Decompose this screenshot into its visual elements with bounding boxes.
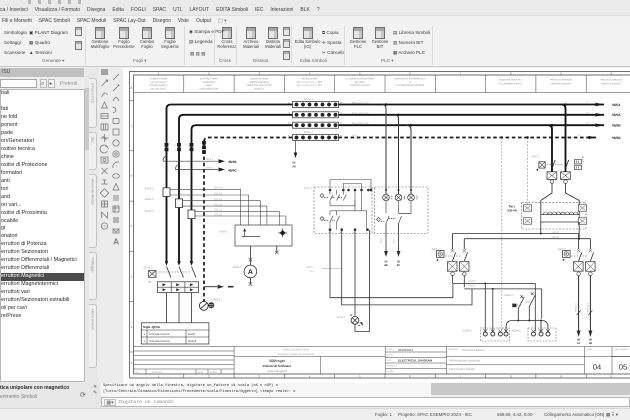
svg-text:SDProget: SDProget: [269, 359, 285, 363]
bus right end arrows: [589, 103, 605, 139]
svg-text:TA3 S2: TA3 S2: [214, 213, 223, 216]
svg-text:PRESA DI SERVIZIO: PRESA DI SERVIZIO: [550, 78, 572, 81]
socket feeder taps from buses: [548, 105, 566, 172]
earth node xPE01: [199, 299, 223, 311]
svg-text:Fogli Seguenti: Fogli Seguenti: [614, 348, 628, 351]
terminal strip row 2: [288, 112, 343, 118]
socket terminal strip XQ5A right: [511, 328, 557, 341]
svg-text:05/5B: 05/5B: [612, 124, 621, 128]
svg-text:A: A: [248, 269, 253, 276]
svg-text:ALIMENTAZIONE: ALIMENTAZIONE: [149, 77, 168, 80]
svg-text:-XQ5A 1: -XQ5A 1: [462, 330, 473, 333]
PE riser below strip 4: [293, 141, 298, 169]
svg-text:N: N: [200, 142, 202, 145]
svg-text:Schneider Electric: Schneider Electric: [149, 333, 171, 336]
left palette: [0, 68, 90, 408]
wire selector to socket strip (neutral): [342, 230, 472, 305]
lighting switch contacts: [377, 201, 412, 224]
svg-text:INTERRUTTORE: INTERRUTTORE: [200, 77, 218, 80]
bus wire-number labels: [578, 101, 589, 137]
wire number tags on phase risers: [165, 141, 206, 154]
panel lamp HL6L: [336, 315, 363, 327]
frame bottom tick marks: [184, 374, 586, 378]
svg-text:3-4: 3-4: [310, 270, 314, 273]
svg-text:ALIMENTAZIONE PLC: ALIMENTAZIONE PLC: [499, 78, 523, 81]
title block grid: [134, 347, 630, 375]
svg-text:5: 5: [131, 224, 133, 228]
QF0 1 terminal cells: [547, 172, 570, 184]
svg-text:-WTC 1: -WTC 1: [306, 266, 315, 269]
lighting lamps EL1 EL2 EL3: [383, 189, 418, 201]
svg-text:05/5A: 05/5A: [612, 113, 621, 117]
svg-text:MODIFICA: MODIFICA: [152, 371, 163, 374]
svg-text:Main Power Supply: Main Power Supply: [449, 367, 475, 371]
svg-text:-WTC 1: -WTC 1: [303, 187, 312, 190]
svg-text:L1: L1: [586, 101, 589, 104]
svg-text:TA2 S2: TA2 S2: [214, 203, 223, 206]
svg-text:-SA0A 1: -SA0A 1: [218, 231, 228, 234]
svg-text:PE: PE: [293, 166, 297, 169]
svg-text:A: A: [113, 238, 119, 247]
svg-text:Esempio di SPAC Automazione: Esempio di SPAC Automazione: [278, 353, 315, 356]
svg-text:DISPOSITIVI E APPARECCHI: DISPOSITIVI E APPARECCHI: [395, 77, 426, 80]
svg-text:3LV 1 / LG 1 / LV 1 / PE1: 3LV 1 / LG 1 / LV 1 / PE1: [297, 81, 323, 84]
title block company box: [263, 359, 292, 373]
CT wire labels: [214, 187, 223, 217]
svg-text:-TA0A 3: -TA0A 3: [144, 210, 154, 213]
PLC 24V wire labels: [468, 280, 476, 287]
N dashed tap to transformer: [527, 138, 529, 205]
svg-text:-QF0A 1: -QF0A 1: [143, 267, 154, 270]
feeder wire 45/4B: [163, 157, 237, 165]
svg-text:Alimentazione generale: Alimentazione generale: [449, 359, 481, 363]
PLC breaker QF0 2: [431, 248, 469, 287]
svg-text:4: 4: [200, 147, 202, 150]
PLC supply drop wires with arrows: [579, 276, 591, 331]
svg-text:6: 6: [131, 174, 133, 178]
svg-text:▪ PE: ▪ PE: [352, 135, 357, 138]
svg-text:W0A 1: W0A 1: [206, 158, 214, 161]
tool columns: [98, 68, 123, 408]
svg-text:1B: 1B: [589, 342, 592, 345]
svg-text:COMM.: COMM.: [387, 370, 395, 373]
svg-text:DATA: DATA: [387, 348, 393, 351]
svg-text:AMMETER SELECTOR: AMMETER SELECTOR: [247, 84, 272, 87]
title block project name: [278, 349, 315, 356]
svg-text:-xPE01 1: -xPE01 1: [212, 299, 224, 302]
bus destination labels: [612, 103, 621, 140]
svg-text:-TA0A 1: -TA0A 1: [144, 188, 154, 191]
svg-text:W0A 2: W0A 2: [206, 166, 214, 169]
svg-text:-PA0A 1: -PA0A 1: [232, 266, 242, 269]
svg-text:1A: 1A: [577, 342, 580, 345]
svg-text:QUADRO: QUADRO: [355, 81, 365, 84]
current transformer TA3: [144, 210, 195, 219]
svg-text:06.2: 06.2: [393, 238, 396, 243]
wire selector to panel lamp: [354, 230, 356, 317]
component table Sigla -QF0A: [141, 323, 209, 344]
ammeter selector switch SA0A box: [218, 225, 292, 246]
lighting box taps from buses: [382, 105, 411, 195]
svg-text:-QF0 1: -QF0 1: [531, 156, 540, 159]
svg-text:GENERALE: GENERALE: [203, 81, 216, 84]
svg-text:TA1 S2: TA1 S2: [214, 192, 223, 195]
svg-text:TA3 S1: TA3 S1: [214, 209, 223, 212]
svg-text:04: 04: [593, 363, 601, 372]
WTC row1 return loop: [330, 201, 355, 206]
svg-text:06.2: 06.2: [380, 238, 383, 243]
svg-text:ILLUMINAZIONE ESTERNI: ILLUMINAZIONE ESTERNI: [396, 84, 425, 87]
svg-text:05/5B: 05/5B: [612, 136, 621, 140]
control transformer TM1: [508, 203, 587, 229]
svg-text:L1: L1: [161, 144, 164, 147]
frame column numbers bottom: [158, 375, 613, 379]
svg-text:DISCONNECTOR: DISCONNECTOR: [200, 88, 219, 91]
svg-text:TA1 S1: TA1 S1: [214, 187, 223, 190]
svg-text:L3: L3: [586, 122, 589, 125]
WTC top terminals: [329, 189, 373, 192]
svg-text:SERVICE SOCKET: SERVICE SOCKET: [601, 82, 622, 85]
strip feeder labels right: [352, 102, 369, 138]
svg-text:26/08/2013: 26/08/2013: [398, 348, 413, 352]
svg-text:3: 3: [131, 325, 133, 329]
transformer secondary 24VAC wires: [453, 222, 591, 249]
svg-text:M9S08: M9S08: [188, 340, 197, 343]
svg-text:-SA0A 2: -SA0A 2: [503, 294, 513, 297]
ribbon: [0, 24, 630, 67]
svg-text:24VAC: 24VAC: [552, 236, 560, 239]
svg-text:N: N: [578, 134, 580, 137]
svg-text:L2: L2: [174, 144, 177, 147]
canvas: [123, 68, 630, 384]
svg-text:630 VA: 630 VA: [508, 209, 518, 213]
current transformer TA2: [144, 198, 183, 207]
bus N dashed wire: [204, 138, 596, 303]
svg-text:8C: 8C: [397, 264, 400, 267]
svg-text:4: 4: [131, 275, 133, 279]
frame row numbers: [131, 86, 133, 365]
main breaker QF0A aux box: [143, 267, 156, 284]
ammeter PA1: [232, 246, 257, 286]
svg-text:Schneider Electric: Schneider Electric: [149, 340, 171, 343]
svg-text:-WIRU 2: -WIRU 2: [303, 131, 313, 134]
socket circuit feed wires to strips: [453, 138, 542, 332]
svg-text:2: 2: [175, 149, 177, 152]
svg-text:L2: L2: [586, 111, 589, 114]
PE bar continuation arrow: [204, 285, 234, 289]
terminal strip row 3: [288, 122, 343, 128]
PLC breaker QF0 3: [557, 248, 595, 276]
CT secondary wires to selector (staircase): [170, 189, 286, 225]
svg-text:1: 1: [163, 149, 165, 152]
svg-text:42: 42: [340, 135, 343, 138]
svg-text:Schema Elettrico: Schema Elettrico: [462, 348, 485, 352]
svg-text:05: 05: [293, 162, 296, 165]
QF0A load wires down: [167, 293, 192, 323]
svg-text:PLC POWER SUPPLY: PLC POWER SUPPLY: [499, 82, 523, 85]
svg-text:N1: N1: [148, 281, 152, 284]
svg-text:SERVICE SOCKET: SERVICE SOCKET: [551, 82, 572, 85]
feeder wire 45/4C: [176, 165, 238, 173]
svg-text:www.sdproget.it: www.sdproget.it: [267, 369, 287, 373]
strip feed loop: [506, 321, 548, 332]
voltmeter selector WTC dashed enclosure: [303, 187, 372, 234]
svg-text:POWER SUPPLY: POWER SUPPLY: [149, 84, 168, 87]
svg-text:NORM m.1: NORM m.1: [387, 365, 399, 368]
svg-text:COMMUTAZIONE: COMMUTAZIONE: [250, 77, 269, 80]
svg-text:8: 8: [131, 86, 133, 90]
svg-text:DISEGNO: DISEGNO: [448, 348, 458, 351]
svg-text:CONTROL BOARD: CONTROL BOARD: [350, 84, 370, 87]
wire selector to socket strip (phase): [330, 230, 453, 298]
svg-text:-Q PM: -Q PM: [582, 156, 585, 163]
WTC contact row 1: [320, 190, 346, 201]
bus L2 phase wire: [179, 115, 604, 264]
svg-text:2: 2: [131, 361, 133, 365]
WTC bottom terminals: [329, 228, 369, 231]
svg-text:400 VAC 50 HZ: 400 VAC 50 HZ: [151, 88, 168, 91]
WTC row2 feed loop: [330, 190, 367, 230]
svg-text:-WIRU 1: -WIRU 1: [303, 98, 313, 101]
auxiliary switch SA0A right: [503, 292, 536, 320]
QF0A terminal grid: [158, 282, 199, 293]
panel lamp HL6L return loop: [355, 230, 370, 331]
svg-text:Foglio: Foglio: [586, 348, 593, 351]
svg-text:PRESA DI SERVIZIO: PRESA DI SERVIZIO: [600, 78, 622, 81]
svg-text:-TA0A 2: -TA0A 2: [144, 198, 154, 201]
wire reference leader WTC 3-4: [306, 266, 342, 273]
svg-text:-XQ5A 2: -XQ5A 2: [511, 330, 522, 333]
svg-text:Sigla -QF0A: Sigla -QF0A: [143, 325, 161, 329]
svg-text:ELECTRICAL DIAGRAM: ELECTRICAL DIAGRAM: [398, 359, 433, 363]
svg-text:DI: DI: [409, 81, 412, 84]
selector spare output wire: [275, 246, 279, 254]
svg-text:3LV 1 / LG 1 / LV 1 / PE1: 3LV 1 / LG 1 / LV 1 / PE1: [297, 84, 323, 87]
svg-text:24VDC: 24VDC: [468, 285, 476, 288]
bus L3 phase wire: [192, 125, 605, 263]
QF0A breaker contacts: [167, 267, 197, 278]
terminal strip -WIRU 1 row 1: [288, 98, 343, 108]
QF0A wire end arrows: [165, 261, 193, 266]
header band column texts: [149, 77, 622, 90]
svg-text:SWITCH: SWITCH: [255, 88, 264, 91]
svg-text:Max LG0.1 A2: Max LG0.1 A2: [352, 122, 369, 125]
svg-text:Multi9: Multi9: [188, 333, 195, 336]
svg-text:400 VAC 50 HZ: 400 VAC 50 HZ: [151, 81, 168, 84]
svg-text:Max LG0.1 A2: Max LG0.1 A2: [352, 102, 369, 105]
svg-text:MAIN: MAIN: [206, 84, 212, 87]
title block sheet numbers: [593, 363, 627, 372]
menu bar: [0, 0, 630, 15]
svg-text:AMPEROMETRICA: AMPEROMETRICA: [249, 81, 270, 84]
svg-text:DIS.m.: DIS.m.: [387, 354, 394, 357]
lighting circuit dashed enclosure: [375, 187, 429, 234]
WTC contact row 2: [320, 211, 340, 222]
svg-text:Industrial Software: Industrial Software: [263, 364, 292, 368]
svg-text:8B: 8B: [384, 264, 387, 267]
svg-text:ILLUMINAZIONE INTERNA: ILLUMINAZIONE INTERNA: [346, 77, 375, 80]
vertical tab strip: [85, 68, 98, 408]
svg-text:L3: L3: [186, 144, 189, 147]
svg-text:3: 3: [188, 149, 190, 152]
svg-text:45/4B: 45/4B: [228, 160, 237, 164]
current transformer TA1: [144, 188, 170, 197]
wire number tag labels: [161, 142, 202, 152]
svg-text:SEZIONATORE: SEZIONATORE: [301, 77, 318, 80]
frame column numbers top: [158, 72, 613, 76]
svg-text:24VAC: 24VAC: [552, 231, 560, 234]
socket terminal strip XQ5A left: [462, 328, 510, 341]
svg-text:45/4C: 45/4C: [228, 168, 237, 172]
WTC top jumper wires: [330, 180, 371, 190]
title block info labels: [387, 348, 629, 373]
svg-text:DATA: DATA: [198, 371, 204, 374]
svg-text:24VDC 1: 24VDC 1: [575, 302, 578, 312]
svg-text:TA2 S1: TA2 S1: [214, 198, 223, 201]
title block texts: [135, 371, 217, 374]
ribbon tab row: [0, 15, 630, 24]
drawing frame outer border: [130, 72, 630, 379]
svg-text:FIRMA: FIRMA: [210, 371, 217, 374]
svg-text:Max LG0.1 A2: Max LG0.1 A2: [352, 112, 369, 115]
lighting circuit output arrows: [386, 224, 399, 252]
svg-text:DIS.: DIS.: [135, 371, 140, 374]
bottom strips: [430, 383, 630, 395]
socket breaker QF0 1: [531, 156, 585, 171]
title block drawing description: [449, 348, 485, 371]
socket breaker to transformer wires: [541, 183, 579, 214]
svg-text:24VDC 2: 24VDC 2: [586, 302, 589, 312]
frame left tick marks: [130, 101, 134, 353]
svg-text:7: 7: [131, 124, 133, 128]
svg-text:-HL6L 1: -HL6L 1: [336, 316, 346, 319]
svg-text:SPAC ESEMPIO 2024: SPAC ESEMPIO 2024: [283, 349, 309, 352]
svg-text:24VDC: 24VDC: [468, 280, 476, 283]
bus L1 phase wire: [167, 105, 605, 264]
svg-text:FILE: FILE: [387, 359, 392, 362]
svg-text:05/5A: 05/5A: [612, 103, 621, 107]
svg-text:05: 05: [619, 363, 627, 372]
function header band: [134, 75, 630, 93]
terminal strip -WIRU 2 row 4: [288, 131, 343, 141]
title block info values: [398, 348, 433, 363]
